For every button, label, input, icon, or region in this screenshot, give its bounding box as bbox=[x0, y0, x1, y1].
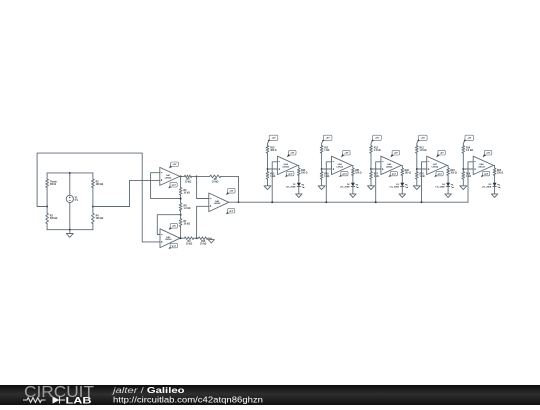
resistor R10 400 Ω (stage 1 threshold top) bbox=[266, 146, 269, 153]
wire LED cathode stage 5 bbox=[494, 186, 496, 194]
svg-text:1 kΩ: 1 kΩ bbox=[466, 176, 471, 178]
wire resistor to LED stage 2 bbox=[352, 175, 354, 182]
resistor R2 (bridge right top arm) bbox=[92, 179, 95, 188]
wire bridge right branch lower lead bbox=[92, 224, 94, 230]
op-amp OA8 LM324 (stage 5) bbox=[473, 156, 493, 174]
wire signal rail (OA2 output bus to stages) bbox=[229, 201, 468, 203]
wire output lead stage 1 bbox=[298, 165, 299, 168]
svg-text:100 kΩ: 100 kΩ bbox=[96, 184, 104, 186]
svg-text:400 Ω: 400 Ω bbox=[270, 149, 276, 152]
wire bridge right-mid to OA1 noninverting input bbox=[93, 180, 160, 206]
wire divider middle stage 2 bbox=[321, 153, 323, 172]
node B (OA2 noninverting network) bbox=[196, 237, 198, 239]
node chain tap 1 (OA1 feedback) bbox=[180, 198, 182, 200]
svg-text:10 kΩ: 10 kΩ bbox=[186, 243, 192, 245]
ground (stage 1 divider) bbox=[267, 179, 269, 186]
svg-text:+5V: +5V bbox=[421, 138, 425, 140]
wire R9 to node B bbox=[194, 237, 197, 239]
wire flag to divider stage 3 bbox=[371, 141, 372, 146]
thermistor Therm (bridge left top arm) bbox=[46, 179, 49, 188]
LED D1 LTL-30EE (stage 1) bbox=[297, 183, 301, 186]
power flag +5V (OA5 V+) bbox=[341, 153, 345, 157]
wire flag to divider stage 5 bbox=[463, 141, 464, 146]
svg-text:+5V: +5V bbox=[272, 138, 276, 140]
power flag gnd (OA4 V-) bbox=[285, 174, 289, 177]
resistor R11 1 kΩ (stage 2 threshold top) bbox=[320, 146, 323, 153]
wire chain node1 bbox=[180, 195, 182, 203]
logo resistor-diode doodle bbox=[23, 396, 65, 403]
resistor R24 100 Ω (LED ballast stage 5) bbox=[493, 168, 496, 175]
resistor R16 1 kΩ (stage 2 threshold bottom) bbox=[320, 172, 323, 179]
resistor R6 10k (chain top) bbox=[179, 188, 182, 196]
wire bridge left-mid to top rail to OA3 noninverting input bbox=[37, 153, 160, 242]
wire bridge bottom edge bbox=[47, 229, 93, 231]
wire bridge center upper bbox=[69, 173, 71, 195]
svg-text:gnd: gnd bbox=[172, 185, 177, 187]
resistor R18 1 kΩ (stage 4 threshold bottom) bbox=[415, 172, 418, 179]
resistor R14 4.2 kΩ (stage 5 threshold top) bbox=[462, 146, 465, 153]
wire divider middle stage 5 bbox=[462, 153, 464, 172]
wire resistor to LED stage 5 bbox=[494, 175, 496, 182]
resistor R7 10k (chain bottom) bbox=[179, 219, 182, 227]
wire divider tap to noninverting input stage 5 bbox=[463, 168, 473, 170]
power flag +5V (OA3 V+) bbox=[169, 227, 173, 230]
wire chain bottom lead bbox=[180, 226, 182, 238]
wire flag to divider stage 1 bbox=[268, 141, 269, 146]
resistor R13 1.8 kΩ (stage 4 threshold top) bbox=[415, 146, 418, 153]
node OA2 output junction bbox=[238, 201, 240, 203]
svg-text:1.2 kΩ: 1.2 kΩ bbox=[184, 208, 191, 210]
wire LED cathode stage 4 bbox=[447, 186, 449, 194]
svg-text:gnd: gnd bbox=[484, 173, 489, 175]
power flag gnd (OA8 V-) bbox=[481, 174, 485, 177]
resistor R9 10k (OA3 output) bbox=[184, 237, 193, 240]
wire R5 to node A bbox=[192, 175, 197, 177]
resistor R5 10k (OA1 output) bbox=[184, 175, 191, 178]
svg-text:1.8 kΩ: 1.8 kΩ bbox=[420, 150, 427, 152]
ground (in-amp reference) bbox=[210, 238, 212, 239]
node rail junction stage 1 bbox=[271, 201, 273, 203]
node divider tap stage 1 bbox=[267, 168, 269, 170]
resistor R4 (bridge right bottom arm) bbox=[92, 213, 95, 223]
svg-text:gnd: gnd bbox=[229, 211, 234, 213]
power flag +5V (stage 1 divider) bbox=[268, 139, 272, 142]
wire divider middle stage 1 bbox=[267, 153, 269, 172]
svg-text:10 kΩ: 10 kΩ bbox=[185, 182, 191, 184]
svg-text:LM324: LM324 bbox=[165, 176, 172, 179]
svg-text:+5V: +5V bbox=[375, 138, 379, 140]
svg-text:10 kΩ: 10 kΩ bbox=[200, 243, 206, 245]
LED D3 LTL-30EE (stage 3) bbox=[400, 183, 404, 186]
power flag +5V (stage 5 divider) bbox=[464, 139, 468, 142]
node bridge left mid (to in-amp) bbox=[46, 206, 48, 208]
svg-text:100 Ω: 100 Ω bbox=[450, 172, 456, 174]
wire bridge left branch lower lead bbox=[46, 224, 48, 230]
node bridge right mid (to in-amp) bbox=[92, 206, 94, 208]
svg-text:1 kΩ: 1 kΩ bbox=[420, 176, 425, 178]
op-amp OA6 LM324 (stage 3) bbox=[381, 156, 401, 174]
node rail junction stage 4 bbox=[421, 201, 423, 203]
svg-text:4.2 kΩ: 4.2 kΩ bbox=[466, 149, 473, 152]
svg-text:+5V: +5V bbox=[172, 226, 176, 228]
wire LED cathode stage 2 bbox=[352, 186, 354, 194]
wire divider tap to noninverting input stage 2 bbox=[322, 168, 332, 170]
svg-text:LAB: LAB bbox=[66, 395, 92, 405]
wire OA3 inverting input feedback bbox=[157, 215, 180, 235]
node bridge bottom junction bbox=[69, 229, 71, 231]
ground (stage 1 LED) bbox=[296, 194, 302, 198]
svg-text:LM324: LM324 bbox=[336, 165, 343, 168]
wire resistor to LED stage 4 bbox=[447, 175, 449, 182]
voltage source V1 5V bbox=[66, 195, 73, 202]
svg-text:+5V: +5V bbox=[326, 138, 330, 140]
svg-text:LM324: LM324 bbox=[478, 165, 485, 168]
power flag +5V (stage 3 divider) bbox=[371, 139, 375, 142]
svg-text:gnd: gnd bbox=[438, 173, 443, 175]
wire inverting input bus stage 2 bbox=[326, 162, 331, 202]
svg-text:100 Ω: 100 Ω bbox=[301, 172, 307, 174]
power flag +5V (stage 4 divider) bbox=[417, 139, 421, 142]
wire flag to divider stage 2 bbox=[322, 141, 323, 146]
svg-text:LTL-30EE: LTL-30EE bbox=[340, 186, 350, 188]
power flag +5V (OA4 V+) bbox=[287, 153, 291, 157]
wire bridge right branch middle bbox=[92, 188, 94, 214]
wire output lead stage 4 bbox=[447, 165, 448, 168]
power flag +5V (OA8 V+) bbox=[483, 153, 487, 157]
node rail junction stage 3 bbox=[375, 201, 377, 203]
power flag +5V (OA2 V+) bbox=[226, 192, 230, 196]
svg-text:LM324: LM324 bbox=[386, 165, 393, 168]
wire feedback top run (node A to R8) bbox=[197, 175, 210, 177]
power flag +5V (OA1 V+) bbox=[169, 165, 173, 169]
wire flag to divider stage 4 bbox=[417, 141, 418, 146]
wire OA3 output lead bbox=[180, 237, 184, 239]
ground (stage 2 LED) bbox=[350, 194, 356, 198]
node OA1 output junction bbox=[180, 175, 182, 177]
svg-text:1 kΩ: 1 kΩ bbox=[324, 176, 329, 178]
ground (stage 3 LED) bbox=[399, 194, 405, 198]
wire divider tap to noninverting input stage 4 bbox=[417, 168, 427, 170]
wire R8 to output column bbox=[221, 176, 239, 202]
power flag gnd (OA1 V-) bbox=[168, 185, 172, 188]
wire resistor to LED stage 1 bbox=[298, 175, 300, 182]
resistor R19 1 kΩ (stage 5 threshold bottom) bbox=[462, 172, 465, 179]
resistor R21 100 Ω (LED ballast stage 2) bbox=[352, 168, 355, 175]
svg-text:gnd: gnd bbox=[172, 245, 177, 247]
svg-text:LTL-30EE: LTL-30EE bbox=[286, 186, 296, 188]
power flag gnd (OA7 V-) bbox=[434, 174, 438, 177]
svg-text:400 kΩ: 400 kΩ bbox=[50, 217, 58, 220]
svg-text:gnd: gnd bbox=[392, 173, 397, 175]
wire bridge top edge bbox=[47, 172, 93, 174]
svg-text:100 Ω: 100 Ω bbox=[497, 172, 503, 174]
node rail junction stage 2 bbox=[325, 201, 327, 203]
wire node B up to OA2 noninverting input bbox=[197, 206, 209, 238]
ground (stage 4 divider) bbox=[416, 179, 418, 186]
wire OA1 output lead bbox=[180, 175, 185, 177]
wire node B lead bbox=[197, 237, 199, 239]
svg-text:1 kΩ: 1 kΩ bbox=[374, 176, 379, 178]
wire divider middle stage 3 bbox=[370, 153, 372, 172]
node divider tap stage 3 bbox=[370, 168, 372, 170]
node chain tap 2 (OA3 feedback) bbox=[180, 214, 182, 216]
svg-text:gnd: gnd bbox=[288, 173, 293, 175]
wire resistor to LED stage 3 bbox=[401, 175, 403, 182]
wire bridge left branch upper lead bbox=[46, 173, 48, 179]
svg-text:gnd: gnd bbox=[342, 173, 347, 175]
wire output lead stage 2 bbox=[352, 165, 353, 168]
svg-text:+5V: +5V bbox=[486, 153, 490, 155]
wire inverting input bus stage 4 bbox=[422, 162, 427, 202]
svg-text:+5V: +5V bbox=[173, 164, 177, 166]
ground (stage 5 LED) bbox=[491, 194, 497, 198]
wire output lead stage 3 bbox=[401, 165, 402, 168]
wire OA1 inverting input feedback bbox=[151, 173, 181, 199]
op-amp OA4 LM324 (stage 1) bbox=[277, 156, 297, 174]
resistor R3 (bridge left bottom arm) bbox=[46, 213, 49, 223]
LED D5 LTL-30EE (stage 5) bbox=[493, 183, 497, 186]
op-amp OA1 LM324 bbox=[160, 167, 180, 185]
wire R16 to ground bbox=[208, 237, 211, 239]
resistor R23 100 Ω (LED ballast stage 4) bbox=[447, 168, 450, 175]
svg-text:LTL-30EE: LTL-30EE bbox=[482, 186, 492, 188]
svg-text:LTL-30EE: LTL-30EE bbox=[390, 186, 400, 188]
LED D2 LTL-30EE (stage 2) bbox=[351, 183, 355, 186]
ground (stage 2 divider) bbox=[321, 179, 323, 186]
resistor R20 100 Ω (LED ballast stage 1) bbox=[297, 168, 300, 175]
svg-text:10 kΩ: 10 kΩ bbox=[184, 223, 190, 225]
svg-text:1.4 kΩ: 1.4 kΩ bbox=[374, 149, 381, 152]
CircuitLab logo wordmark CIRCUIT bbox=[0, 385, 540, 405]
op-amp OA3 LM324 bbox=[160, 229, 180, 248]
node OA3 output junction bbox=[180, 237, 182, 239]
power flag gnd (OA6 V-) bbox=[389, 174, 393, 177]
ground (bridge) bbox=[69, 230, 71, 234]
wire divider middle stage 4 bbox=[416, 153, 418, 172]
power flag gnd (OA3 V-) bbox=[169, 246, 173, 249]
LED D4 LTL-30EE (stage 4) bbox=[446, 183, 450, 186]
svg-text:1 kΩ: 1 kΩ bbox=[324, 150, 329, 152]
svg-text:http://circuitlab.com/c42atqn8: http://circuitlab.com/c42atqn86ghzn bbox=[113, 394, 263, 404]
op-amp OA7 LM324 (stage 4) bbox=[427, 156, 447, 174]
wire LED cathode stage 3 bbox=[401, 186, 403, 194]
wire chain node2 bbox=[180, 211, 182, 219]
power flag +5V (stage 2 divider) bbox=[322, 139, 326, 142]
svg-text:100 Ω: 100 Ω bbox=[405, 172, 411, 174]
ground (stage 5 divider) bbox=[462, 179, 464, 186]
resistor R15 1 kΩ (stage 1 threshold bottom) bbox=[266, 172, 269, 179]
wire chain top lead bbox=[180, 176, 182, 187]
node divider tap stage 2 bbox=[321, 168, 323, 170]
ground (stage 3 divider) bbox=[370, 179, 372, 186]
svg-text:100 kΩ: 100 kΩ bbox=[96, 218, 104, 220]
resistor R22 100 Ω (LED ballast stage 3) bbox=[401, 168, 404, 175]
resistor RG 1.2k (gain set) bbox=[179, 203, 182, 211]
node bridge top junction bbox=[69, 172, 71, 174]
resistor R12 1.4 kΩ (stage 3 threshold top) bbox=[370, 146, 373, 153]
svg-text:100 Ω: 100 Ω bbox=[355, 172, 361, 174]
svg-text:10 kΩ: 10 kΩ bbox=[184, 192, 190, 194]
wire node A down to OA2 inverting input bbox=[197, 176, 209, 198]
power flag +5V (OA7 V+) bbox=[436, 153, 440, 157]
wire divider tap to noninverting input stage 3 bbox=[371, 168, 381, 170]
svg-text:1 kΩ: 1 kΩ bbox=[270, 176, 275, 178]
svg-text:LM324: LM324 bbox=[432, 165, 439, 168]
resistor R16 10k (node B to ground) bbox=[199, 237, 209, 240]
wire bridge right branch upper lead bbox=[92, 173, 94, 179]
resistor R8 10k (OA2 feedback) bbox=[210, 175, 221, 178]
node divider tap stage 5 bbox=[462, 168, 464, 170]
wire LED cathode stage 1 bbox=[298, 186, 300, 194]
svg-text:10 kΩ: 10 kΩ bbox=[212, 182, 218, 184]
wire bridge center lower bbox=[69, 203, 71, 230]
wire output lead stage 5 bbox=[494, 165, 495, 168]
node divider tap stage 4 bbox=[416, 168, 418, 170]
svg-text:LM324: LM324 bbox=[282, 165, 289, 168]
svg-text:+5V: +5V bbox=[394, 153, 398, 155]
svg-text:400 Ω: 400 Ω bbox=[50, 183, 56, 186]
svg-text:LTL-30EE: LTL-30EE bbox=[435, 186, 445, 188]
op-amp OA2 LM324 bbox=[209, 193, 229, 212]
power flag gnd (OA5 V-) bbox=[339, 174, 343, 177]
wire inverting input bus stage 1 bbox=[272, 162, 277, 202]
power flag +5V (OA6 V+) bbox=[390, 153, 394, 157]
svg-text:+5V: +5V bbox=[467, 138, 471, 140]
resistor R17 1 kΩ (stage 3 threshold bottom) bbox=[370, 172, 373, 179]
wire inverting input bus stage 3 bbox=[376, 162, 381, 202]
power flag gnd (OA2 V-) bbox=[226, 211, 230, 214]
ground (stage 4 LED) bbox=[445, 194, 451, 198]
svg-text:+5V: +5V bbox=[229, 191, 233, 193]
wire bridge left branch middle bbox=[46, 188, 48, 214]
node A (OA2 inverting network) bbox=[196, 175, 198, 177]
svg-text:+5V: +5V bbox=[440, 153, 444, 155]
svg-text:LM324: LM324 bbox=[214, 202, 221, 205]
wire inverting input bus stage 5 bbox=[468, 162, 473, 202]
op-amp OA5 LM324 (stage 2) bbox=[332, 156, 352, 174]
svg-text:+5V: +5V bbox=[344, 153, 348, 155]
svg-text:5 V: 5 V bbox=[75, 200, 79, 202]
svg-text:+5V: +5V bbox=[290, 153, 294, 155]
wire divider tap to noninverting input stage 1 bbox=[268, 168, 278, 170]
svg-text:LM324: LM324 bbox=[165, 238, 172, 241]
